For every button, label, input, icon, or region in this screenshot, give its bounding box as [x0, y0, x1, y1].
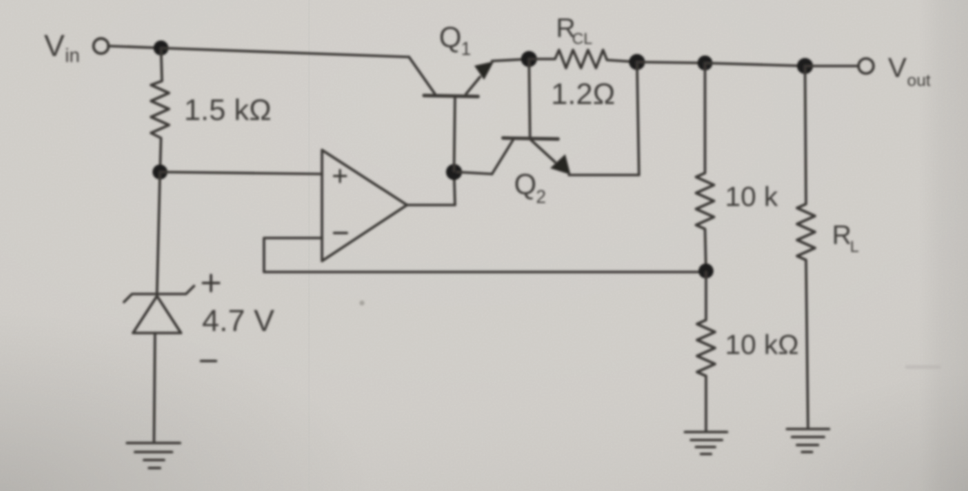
svg-text:R: R	[832, 220, 852, 250]
svg-text:CL: CL	[572, 31, 593, 48]
wire top rail node A to Q1 collector	[161, 48, 409, 57]
wire node E to node G	[705, 63, 805, 66]
faint smudge	[360, 301, 365, 306]
op-amp U1	[322, 150, 407, 261]
ground (10 kOhm)	[685, 431, 727, 434]
resistor 1.5 kOhm	[151, 48, 169, 172]
svg-text:10 k: 10 k	[725, 181, 779, 212]
resistor RCL 1.2 Ohm	[529, 50, 637, 68]
node D (RCL right)	[629, 54, 645, 70]
svg-text:L: L	[850, 239, 859, 256]
op-amp output wire to node F	[407, 171, 455, 205]
resistor 10 k	[696, 63, 714, 271]
node E (10k top)	[698, 56, 713, 71]
wire Q2 emitter to node D	[569, 62, 639, 175]
op-amp - input mark	[334, 232, 347, 234]
node H (feedback divider junction)	[699, 264, 714, 279]
svg-text:V: V	[888, 52, 907, 83]
svg-text:Q: Q	[439, 22, 462, 54]
resistor 10 kOhm	[697, 272, 715, 431]
node G (RL top)	[797, 58, 813, 74]
svg-text:1.5 kΩ: 1.5 kΩ	[184, 94, 271, 127]
node F (op-amp out / Q1 base / Q2 collector)	[446, 164, 462, 180]
svg-text:4.7 V: 4.7 V	[202, 303, 275, 338]
Vin terminal	[94, 39, 109, 54]
wire node B to op-amp + input	[160, 172, 322, 174]
svg-text:in: in	[65, 46, 80, 67]
wire node G to Vout terminal	[805, 65, 857, 68]
svg-text:1.2Ω: 1.2Ω	[551, 78, 615, 111]
wire Q1 emitter to node C	[492, 59, 529, 61]
transistor Q2	[503, 138, 558, 139]
wire node B down to zener	[157, 172, 160, 293]
feedback wire: inverting input to node H	[264, 238, 705, 272]
wire Q2 base up to node C	[529, 59, 530, 137]
node A (Vin junction)	[154, 41, 169, 56]
- mark at zener	[201, 360, 216, 363]
svg-text:V: V	[44, 28, 65, 63]
wire node D to node E	[637, 62, 705, 63]
Vout terminal	[859, 59, 874, 74]
op-amp + input mark	[334, 170, 346, 182]
wire zener anode to ground	[154, 333, 155, 441]
svg-text:1: 1	[461, 39, 471, 59]
svg-text:2: 2	[536, 187, 546, 207]
zener diode D1 (4.7 V)	[124, 286, 194, 302]
transistor Q1	[424, 96, 478, 97]
+ mark at zener	[203, 275, 219, 291]
ground (RL)	[787, 428, 829, 431]
svg-text:Q: Q	[514, 169, 537, 201]
svg-text:10 kΩ: 10 kΩ	[725, 329, 799, 360]
node B (divider/zener junction)	[153, 165, 168, 180]
wire Vin terminal to node A	[108, 46, 161, 48]
faint smudge	[905, 365, 941, 369]
node C (RCL left)	[521, 51, 537, 67]
ground (zener)	[127, 442, 180, 445]
resistor RL	[797, 66, 815, 427]
svg-text:out: out	[907, 71, 931, 90]
